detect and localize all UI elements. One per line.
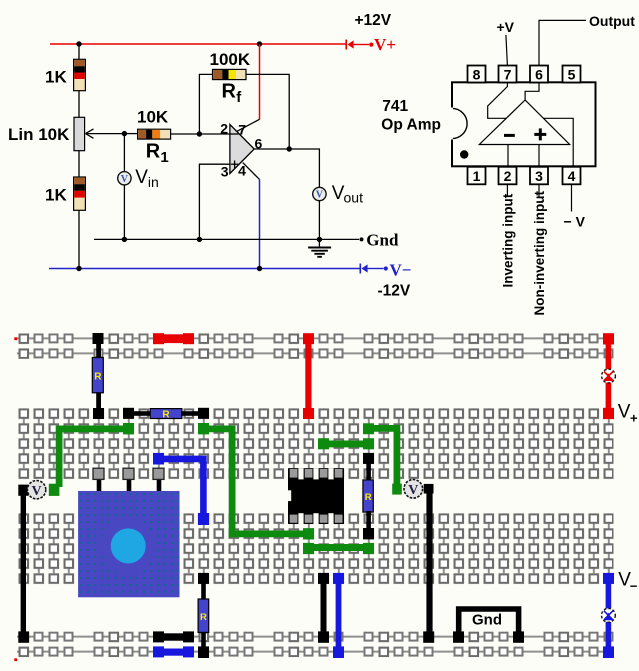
svg-text:+: + [630,411,638,426]
voltmeter right [404,480,423,499]
DIP pin 2 square [499,167,517,185]
wire junction to R1 [124,133,137,135]
svg-text:−: − [630,578,638,593]
breadboard top rail red mark [14,337,17,340]
wire blue A4-c9 to B1-c12 [153,453,209,525]
wire feedback right [246,74,289,149]
wire Vout to gnd line [318,201,320,240]
meter Vout circle [313,187,326,200]
breadboard bottom power rails holes [17,632,614,658]
svg-text:1K: 1K [45,186,67,205]
node blue rail at 1K [76,266,81,271]
wire red rail to pin7 [259,44,261,120]
svg-text:− V: − V [564,213,586,229]
svg-text:4: 4 [238,163,246,179]
wire blue jumper bottom rail2 [153,646,194,657]
wire Output lead [539,20,586,65]
wire black jumper bottom rail1 [153,631,194,642]
DIP notch [452,108,467,138]
DIP pin 7 square [499,66,517,83]
svg-text:out: out [344,190,364,206]
wire black Gnd bridge [453,609,524,643]
svg-text:Gnd: Gnd [472,612,502,629]
wire pin 4 to V- [243,163,260,180]
wire +12V rail (red) [50,43,346,45]
svg-text:100K: 100K [210,50,251,69]
wire green A2-c12 to B2-c19 [198,423,314,540]
DIP wire pin2 to minus [507,145,509,167]
wire pin3 stub [538,184,540,196]
breadboard bottom rail red mark [14,658,17,661]
svg-text:10K: 10K [137,107,169,126]
node output junction [287,146,292,151]
wire pin2 stub [506,184,508,196]
label Vout [332,183,363,206]
DIP pin 5 square [563,66,581,83]
op-amp plus sign [231,161,238,168]
pot wiper arrow [86,129,125,138]
wire green B3-c19 to B3-c23 [303,543,374,554]
DIP wire pin7 to triangle [488,83,508,119]
node pin3 gnd [197,237,202,242]
potentiometer breadboard [78,468,179,597]
DIP plus sign [534,128,546,140]
wire pin 7 to supply [237,119,260,131]
wire 1K bottom to blue rail [78,210,80,268]
DIP pin1 marker dot [460,150,468,158]
svg-text:Inverting input: Inverting input [501,193,516,287]
svg-text:in: in [148,174,159,190]
wire black left voltmeter to gnd rail [18,494,29,643]
wire blue V- feed [603,573,614,658]
svg-text:741: 741 [382,98,408,115]
svg-text:4: 4 [568,168,576,184]
wire green A2-c23 to right voltmeter [363,423,402,494]
svg-text:2: 2 [220,120,228,136]
op-amp minus tick [230,133,239,135]
svg-text:V: V [135,167,148,188]
wire -12V rail (blue) [49,268,360,270]
label Rf [222,81,243,106]
svg-text:V: V [408,483,418,498]
wire Vin down [123,134,125,172]
svg-text:R: R [200,612,207,623]
meter Vin circle [118,172,131,185]
resistor R (feedback) vertical c23 [363,453,374,540]
V+ rail arrow symbol [346,40,373,50]
DIP wire triangle to pin4 [544,118,574,166]
svg-text:+V: +V [497,19,515,35]
potentiometer Lin 10K body [74,117,85,150]
V- rail arrow symbol [360,264,388,274]
wire green A2-c7 to left voltmeter [49,423,134,496]
svg-text:Op Amp: Op Amp [381,117,441,134]
breadboard block A holes [19,408,614,479]
resistor R (100K) horizontal row A1 [123,408,209,421]
node gnd label dot [360,237,364,241]
svg-text:+12V: +12V [355,12,392,29]
node on red rail at 1K [76,41,81,46]
svg-text:Non-inverting input: Non-inverting input [532,191,547,316]
wire R1 to inverting input [171,133,230,135]
wire black right voltmeter to gnd rail [423,484,434,643]
breadboard top power rails holes [17,333,614,359]
DIP pin 3 square [530,167,548,185]
wire red jumper top rail [153,333,194,344]
svg-text:Output: Output [589,13,635,29]
DIP wire pin6 to apex [525,83,539,101]
wire red V+ feed [603,333,614,419]
wire blue pin4 down [259,179,261,268]
resistor R1 10K [138,129,171,139]
node inverting input junction [197,131,202,136]
svg-text:7: 7 [238,121,246,137]
svg-text:V: V [316,190,324,201]
wire +V lead [506,35,508,66]
node on red rail at op-amp supply [257,41,262,46]
svg-text:8: 8 [473,66,481,82]
svg-text:3: 3 [535,168,543,184]
svg-text:5: 5 [568,66,576,82]
connector socket V+ [602,369,616,383]
DIP minus sign [504,134,515,137]
svg-text:V−: V− [390,261,412,280]
svg-text:R: R [162,409,170,420]
DIP pin 1 square [468,167,486,185]
svg-text:Lin 10K: Lin 10K [8,125,70,144]
svg-text:7: 7 [504,66,512,82]
node Vout gnd [317,237,322,242]
wire 1K to pot [78,91,80,118]
wire green A3-c20 to A3-c23 [318,438,374,449]
wire ground line [94,238,359,240]
wire blue B5-c21 to -12V rail [333,573,344,658]
svg-text:V: V [32,484,42,499]
svg-text:2: 2 [504,168,512,184]
svg-text:R: R [222,81,237,103]
node blue rail at pin4 [257,266,262,271]
wire feedback left [199,74,212,134]
DIP wire pin3 to plus [538,145,540,167]
label R1 [146,141,169,166]
DIP pin 8 square [468,66,486,83]
node wiper junction [122,131,127,136]
wire Vin to gnd line [123,185,125,239]
resistor R vertical B5-c12 to -12V rail [198,573,209,658]
op-amp U1 triangle [230,125,254,174]
node Vin gnd [122,237,127,242]
svg-text:6: 6 [535,66,543,82]
svg-text:R: R [365,492,372,503]
resistor 1K (top) [74,59,86,90]
svg-text:3: 3 [221,164,229,180]
wire rail to resistor 1K top [78,44,80,60]
wire pin 3 to ground [199,164,230,239]
DIP pin 4 square [563,167,581,185]
svg-text:1K: 1K [45,68,67,87]
wire red vertical rail to A1 [303,333,314,419]
resistor Rf 100K [213,69,247,79]
741 DIP package body [452,82,596,166]
connector socket V- [602,608,616,622]
svg-text:V+: V+ [374,35,396,54]
resistor R (10K) vertical top left [92,333,104,419]
ground symbol [308,241,331,257]
DIP internal op-amp triangle [479,100,569,145]
wire black B5-c20 to gnd rail [318,573,329,643]
breadboard block B holes [19,513,614,584]
svg-text:R: R [146,141,161,163]
wire pot to 1K bottom [78,151,80,177]
label Vin [135,167,159,190]
label V- breadboard [618,569,638,593]
svg-text:Gnd: Gnd [366,231,399,250]
wire pin4 to -V [571,184,573,211]
svg-text:R: R [94,372,102,383]
svg-text:1: 1 [160,149,168,166]
label V+ breadboard [618,401,638,425]
voltmeter left [18,481,45,499]
svg-text:-12V: -12V [378,282,411,299]
svg-text:1: 1 [473,168,481,184]
svg-text:V: V [121,174,129,185]
svg-text:V: V [618,401,631,422]
wire output [254,149,319,187]
DIP pin 6 square [530,66,548,83]
resistor 1K (bottom) [74,177,86,210]
op-amp chip 8-pin DIP [287,468,344,524]
